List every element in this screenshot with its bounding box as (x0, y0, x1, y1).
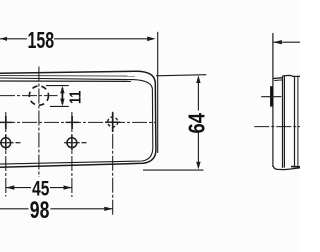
svg-text:64: 64 (184, 113, 210, 134)
svg-text:11: 11 (67, 91, 85, 104)
svg-text:158: 158 (27, 28, 54, 54)
svg-text:98: 98 (30, 196, 50, 224)
